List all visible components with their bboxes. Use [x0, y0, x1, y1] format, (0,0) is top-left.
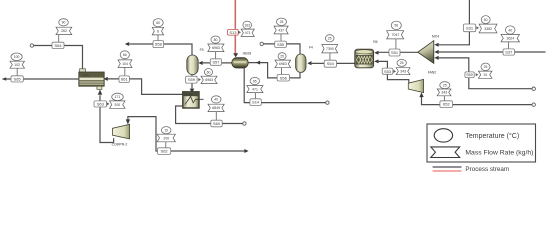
- leader S37: [508, 42, 510, 49]
- stream label S57: [210, 59, 221, 66]
- wire S51 from MX4 into R6 top right: [379, 51, 418, 53]
- svg-text:S52: S52: [443, 102, 451, 107]
- svg-text:25: 25: [400, 61, 404, 65]
- svg-text:25: 25: [328, 37, 332, 41]
- mixer MX4: [418, 35, 439, 64]
- node S50 open end marker: [532, 87, 535, 90]
- temperature ellipse 95 (S14): [250, 77, 259, 84]
- junction arrow S50 to banner: [476, 73, 479, 76]
- heater HE09: [183, 92, 204, 108]
- leader S51: [395, 39, 397, 49]
- arrow into F4: [307, 61, 311, 65]
- mass flow banner 102 (S65): [10, 61, 25, 68]
- svg-text:S50: S50: [466, 73, 473, 77]
- node S65 open start arrow: [2, 77, 6, 81]
- leader S56: [281, 68, 283, 75]
- mass flow banner 343 (S53): [396, 68, 410, 75]
- mass flow banner 7390 (S54): [322, 45, 338, 53]
- svg-text:171: 171: [115, 95, 121, 99]
- stream label S52: [440, 101, 453, 108]
- mass flow banner 6963 (S59): [201, 76, 217, 83]
- junction arrow S59 to banner: [198, 78, 201, 81]
- junction arrow S63 to banner: [107, 102, 110, 105]
- temperature ellipse 163 (S13): [243, 21, 252, 29]
- svg-text:COMPR-2: COMPR-2: [112, 142, 128, 146]
- node S60 open end marker: [243, 122, 246, 125]
- stream label S14: [250, 99, 261, 106]
- svg-text:S58: S58: [155, 42, 163, 47]
- arrow into FAN2: [419, 92, 423, 97]
- junction arrow S31 to banner: [476, 26, 479, 29]
- temperature ellipse 56 (S51): [391, 21, 401, 29]
- temperature ellipse 25 (S56): [278, 53, 286, 60]
- arrow MX4 inlet bottom: [434, 56, 438, 60]
- leader S54: [329, 53, 331, 60]
- svg-text:90: 90: [62, 21, 66, 25]
- temperature ellipse 25 (S52): [440, 82, 450, 89]
- stream label S13 (red): [228, 29, 239, 35]
- svg-text:3382: 3382: [484, 27, 492, 31]
- svg-text:F5: F5: [200, 48, 204, 52]
- flash drum F4: [296, 46, 313, 73]
- svg-text:S62: S62: [161, 149, 169, 154]
- stream label S60: [211, 120, 222, 127]
- wire S54 from R6 left into F4 right: [312, 62, 355, 64]
- legend temperature ellipse: [434, 129, 452, 142]
- legend label Temperature: [465, 132, 519, 140]
- mass flow banner 31 (S50): [478, 71, 492, 78]
- wire S52 from open end into FAN2 bottom: [422, 97, 532, 105]
- wire S63 from COMPR-2 up into HE11 bottom: [100, 95, 114, 142]
- mass flow banner 343 (S52): [437, 89, 451, 96]
- svg-text:HE08: HE08: [243, 51, 252, 55]
- temperature ellipse 25 (S55): [277, 18, 287, 25]
- svg-text:100: 100: [14, 55, 20, 59]
- svg-text:163: 163: [244, 23, 250, 27]
- svg-text:Temperature (°C): Temperature (°C): [465, 132, 519, 140]
- arrow open end S62: [244, 149, 248, 153]
- leader S14: [254, 93, 256, 99]
- svg-text:MX4: MX4: [432, 35, 439, 39]
- svg-text:262: 262: [61, 29, 67, 33]
- svg-text:6: 6: [157, 30, 159, 34]
- svg-text:60: 60: [207, 70, 211, 74]
- leader S65: [16, 68, 18, 76]
- svg-text:437: 437: [278, 28, 284, 32]
- wire S31 from top edge into MX4 top inlet: [439, 0, 470, 45]
- stream label S58: [153, 41, 164, 48]
- wire S14 from HE08 bottom to open end: [244, 68, 325, 103]
- leader S60: [215, 112, 217, 121]
- svg-text:343: 343: [441, 91, 447, 95]
- arrow into HE11 bottom: [98, 89, 102, 94]
- wire S56 from F4 bottom into HE08 right: [249, 63, 300, 78]
- stream label S64: [52, 42, 64, 48]
- arrow into HE09: [190, 89, 195, 94]
- legend box: [427, 124, 536, 162]
- mass flow banner 104 (S61): [118, 60, 132, 68]
- svg-text:S56: S56: [280, 75, 288, 80]
- arrow into F5: [198, 61, 202, 65]
- temperature ellipse 171 (S63): [112, 93, 124, 100]
- svg-text:S51: S51: [391, 50, 399, 55]
- stream label S37: [503, 49, 515, 55]
- svg-text:S37: S37: [505, 50, 513, 55]
- heat exchanger HE08: [232, 51, 251, 68]
- leader S57: [215, 52, 217, 59]
- svg-text:7047: 7047: [392, 33, 400, 37]
- stream label S56: [277, 75, 289, 82]
- svg-text:471: 471: [245, 31, 251, 35]
- svg-text:60: 60: [484, 18, 488, 22]
- wire S62 from right end into COMPR-2 top: [128, 117, 245, 151]
- svg-text:S14: S14: [252, 100, 260, 105]
- red utility stream S13 into HE08: [234, 0, 236, 54]
- leader S58: [157, 35, 159, 41]
- svg-text:31: 31: [483, 73, 487, 77]
- svg-text:S65: S65: [14, 76, 22, 81]
- svg-text:104: 104: [122, 62, 128, 66]
- mass flow banner 3624 (S37): [501, 35, 520, 42]
- arrow MX4 inlet mid: [434, 50, 438, 54]
- temperature ellipse 80 (S57): [211, 36, 220, 43]
- arrow on S56 into HE08: [256, 61, 260, 65]
- stream label S55: [275, 41, 287, 47]
- svg-text:15: 15: [164, 129, 168, 133]
- mass flow banner 6849 (S60): [208, 104, 224, 111]
- svg-text:25: 25: [280, 20, 284, 24]
- svg-text:40: 40: [214, 98, 218, 102]
- svg-text:S64: S64: [54, 43, 62, 48]
- svg-text:56: 56: [394, 24, 398, 28]
- svg-text:80: 80: [214, 38, 218, 42]
- leader S64: [58, 35, 60, 43]
- stream label S62: [158, 148, 171, 155]
- svg-text:S63: S63: [97, 102, 105, 107]
- svg-text:S31: S31: [466, 25, 474, 30]
- svg-text:66: 66: [123, 53, 127, 57]
- temperature ellipse 40 (S37): [505, 26, 515, 34]
- svg-text:3624: 3624: [507, 37, 515, 41]
- mass flow banner 6 (S58): [152, 27, 163, 35]
- reactor R6: [355, 40, 378, 68]
- wire S59 from F5 bottom into HE09 top: [191, 75, 193, 89]
- mass flow banner 262 (S64): [56, 27, 72, 34]
- leader S62: [165, 142, 167, 148]
- stream label S50: [465, 72, 474, 78]
- node S55 open start marker: [260, 42, 263, 45]
- svg-text:S55: S55: [277, 42, 285, 47]
- temperature ellipse 40 (S60): [211, 96, 221, 103]
- svg-text:40: 40: [508, 28, 512, 32]
- svg-text:S60: S60: [213, 121, 221, 126]
- mass flow banner 7047 (S51): [387, 31, 404, 39]
- stream label S61: [119, 76, 129, 83]
- svg-text:6963: 6963: [212, 46, 220, 50]
- arrow into R6 lower: [374, 59, 378, 63]
- arrow MX4 inlet top: [434, 43, 438, 47]
- temperature ellipse 25 (S53): [397, 59, 406, 66]
- junction arrow S13 to banner: [238, 31, 241, 34]
- svg-text:343: 343: [400, 69, 406, 73]
- temperature ellipse 15 (S62): [161, 127, 171, 134]
- temperature ellipse 25 (S50): [481, 63, 490, 70]
- wire S65 out of HE11 left to image edge: [3, 78, 80, 80]
- mass flow banner 437 (S55): [274, 26, 288, 34]
- node S64 open end marker: [30, 44, 33, 47]
- mass flow banner 3382 (S31): [479, 24, 497, 33]
- wire S61 from HE09 left into HE11 right: [108, 79, 184, 95]
- svg-text:S54: S54: [327, 61, 335, 66]
- wire S58 vapor from F5 top with open left arrow: [129, 44, 192, 55]
- stream label S59: [186, 76, 198, 83]
- temperature ellipse 60 (S31): [481, 16, 490, 24]
- svg-text:6963: 6963: [205, 78, 213, 82]
- svg-text:95: 95: [253, 79, 257, 83]
- stream label S53: [382, 68, 393, 74]
- svg-text:6849: 6849: [212, 106, 220, 110]
- arrow open end S58: [125, 42, 129, 46]
- arrow into COMPR-2: [126, 119, 130, 124]
- temperature ellipse 25 (S54): [325, 35, 334, 42]
- legend mass flow banner: [431, 147, 460, 158]
- mass flow banner 6963 (S56): [275, 60, 291, 68]
- svg-text:FAN2: FAN2: [428, 71, 437, 75]
- svg-text:200: 200: [163, 136, 169, 140]
- temperature ellipse 90 (S64): [59, 19, 69, 26]
- svg-text:25: 25: [280, 55, 284, 59]
- svg-text:200: 200: [114, 103, 120, 107]
- svg-text:25: 25: [484, 65, 488, 69]
- junction arrow S53 to banner: [393, 70, 396, 73]
- wire S53 from FAN2 into R6 bottom right: [379, 61, 409, 82]
- wire S57 from HE08 left into F5 right: [202, 62, 232, 64]
- node S14 open end marker: [326, 101, 329, 104]
- flash drum F5: [187, 48, 204, 75]
- wire S55 from marker into F4 top: [263, 44, 300, 54]
- svg-text:Process stream: Process stream: [465, 166, 509, 173]
- mass flow banner 471 (S13): [241, 29, 254, 36]
- wire S60 from HE09 left to open end: [176, 106, 243, 124]
- svg-text:HE09: HE09: [184, 93, 192, 97]
- stream label S63: [94, 101, 107, 107]
- svg-text:60: 60: [156, 21, 160, 25]
- stream label S54: [324, 60, 336, 67]
- temperature ellipse 60 (S59): [204, 69, 212, 76]
- svg-text:102: 102: [14, 63, 20, 67]
- temperature ellipse 100 (S65): [11, 53, 22, 61]
- heat exchanger HE11 (multistream block): [79, 69, 104, 90]
- svg-text:Mass Flow Rate (kg/h): Mass Flow Rate (kg/h): [465, 150, 533, 157]
- leader S55: [280, 34, 282, 41]
- mass flow banner 471 (S14): [247, 86, 263, 93]
- svg-text:S57: S57: [212, 60, 220, 65]
- arrow into HE11: [104, 77, 108, 81]
- node S52 open end marker: [532, 103, 535, 106]
- leader S61: [124, 68, 126, 76]
- svg-text:S59: S59: [188, 77, 196, 82]
- svg-text:S13: S13: [229, 30, 237, 35]
- wire S50 from open end into MX4 bottom inlet: [439, 58, 532, 89]
- wire S64 from marker to HE11 top: [34, 46, 83, 73]
- leader S52: [443, 96, 445, 101]
- compressor COMPR-2: [112, 124, 130, 146]
- arrow S13 into HE08 top: [233, 53, 238, 57]
- svg-text:F4: F4: [309, 46, 313, 50]
- mass flow banner 6963 (S57): [208, 44, 224, 52]
- legend process stream sample lines: [433, 167, 462, 171]
- svg-text:S61: S61: [121, 77, 129, 82]
- stream label S51: [389, 49, 400, 56]
- svg-text:471: 471: [252, 87, 258, 91]
- temperature ellipse 66 (S61): [120, 51, 129, 59]
- svg-text:25: 25: [443, 84, 447, 88]
- temperature ellipse 60 (S58): [153, 19, 163, 27]
- arrow into R6: [374, 51, 378, 55]
- svg-text:S53: S53: [384, 69, 392, 74]
- stream label S31: [463, 24, 475, 32]
- svg-text:6963: 6963: [279, 62, 287, 66]
- mass flow banner 200 (S62): [157, 134, 175, 142]
- svg-text:7390: 7390: [326, 47, 334, 51]
- fan FAN2: [408, 71, 436, 93]
- legend label Process stream: [465, 166, 509, 173]
- svg-text:R6: R6: [373, 40, 377, 44]
- stream label S65: [11, 76, 23, 82]
- mass flow banner 200 (S63): [110, 101, 126, 108]
- svg-text:HE11: HE11: [82, 74, 90, 78]
- wire S37 from right into MX4 mid inlet: [439, 51, 546, 53]
- legend label Mass Flow Rate: [465, 150, 533, 157]
